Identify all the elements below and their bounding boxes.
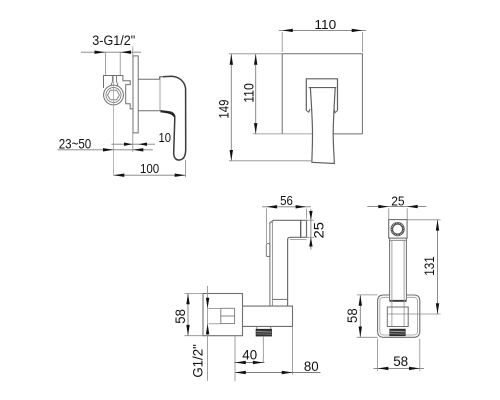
handset head side outline [270, 220, 307, 306]
arrow up at nipple bottom [206, 324, 209, 335]
handset grip front edge outer [269, 223, 271, 306]
dim line 10 [112, 143, 156, 145]
extension line flange right bottom v4 [419, 339, 421, 371]
svg-text:56: 56 [280, 193, 293, 208]
arrow down 58 v3 [186, 325, 189, 336]
arrow left-pointing at 100 left [114, 174, 125, 177]
flange nipple mid line [221, 315, 235, 317]
arrow left-pointing at port right [120, 51, 131, 54]
arrow right-pointing 56 [296, 205, 307, 208]
valve centerline [113, 76, 115, 175]
dim line 58 left v3 [187, 294, 189, 336]
plate bottom edge left segment [253, 133, 312, 135]
extension line plate right top [361, 32, 363, 52]
dim line 40 [234, 362, 264, 364]
trim housing right edge [159, 77, 161, 111]
dim line 25 top [367, 206, 426, 208]
handle head bar top [306, 79, 337, 111]
arrow right-pointing 110 [352, 29, 363, 32]
handset grip ring [272, 298, 287, 300]
svg-text:40: 40 [242, 348, 257, 363]
svg-text:23~50: 23~50 [59, 136, 92, 152]
extension line plate top [132, 47, 134, 57]
extension line flange top left [185, 293, 204, 295]
arrow right-pointing 80 [282, 371, 293, 374]
arrow left-pointing 110 [282, 29, 293, 32]
extension line plate bottom [132, 133, 134, 152]
extension line wall face [234, 336, 236, 381]
extension line nipple bottom [209, 323, 221, 325]
extension line port left [104, 52, 106, 75]
dim line 3-G1/2 [81, 51, 141, 53]
arrow down 131 [436, 303, 439, 314]
svg-text:110: 110 [241, 83, 256, 103]
extension line flange bottom left [185, 335, 204, 337]
valve cartridge inner ring [106, 88, 121, 103]
arrow down 25 [309, 211, 312, 220]
flange nipple box [221, 308, 235, 323]
plate bottom edge right segment [334, 133, 363, 135]
bracket cup front [387, 307, 408, 327]
trim plate front [282, 54, 362, 134]
bracket arm [243, 306, 293, 326]
dim line 80 [235, 372, 321, 374]
extension line head top right [307, 219, 314, 221]
arrow right-pointing at port left [95, 51, 106, 54]
svg-text:G1/2": G1/2" [190, 344, 205, 378]
extension line flange left bottom v4 [377, 339, 379, 371]
lever handle outline [161, 76, 186, 160]
arrow left-pointing 40 [235, 361, 246, 364]
arrow down 58 v4 [359, 327, 362, 338]
wall flange front inner [380, 297, 418, 335]
arrow right-pointing 25 top [378, 205, 389, 208]
dim line 149 [230, 54, 232, 161]
dim line 56 [262, 206, 311, 208]
arrow right-pointing at plate left [124, 143, 133, 146]
valve cartridge outer circle [104, 85, 124, 105]
arrow down 110 left [254, 123, 257, 134]
svg-text:131: 131 [422, 256, 437, 276]
svg-text:25: 25 [311, 222, 326, 239]
handset head front [389, 220, 407, 239]
grip front outer lines [390, 238, 407, 300]
extension line nipple top [209, 307, 221, 309]
arrow down 149 [230, 150, 233, 161]
trim housing top line [138, 78, 160, 80]
grip end line in cup [387, 313, 408, 315]
valve cartridge hex [108, 90, 120, 100]
dim line 110 left [255, 54, 257, 134]
dim line 23~50 [58, 149, 153, 151]
hose extension line [262, 336, 264, 363]
dim line 25 vertical [310, 209, 312, 249]
handle left tab bottom [306, 109, 310, 112]
arrow up 58 v4 [359, 295, 362, 306]
arrow left-pointing 80 [235, 371, 246, 374]
extension line head top right v4 [407, 219, 440, 221]
arrow left-pointing at plate back [133, 148, 143, 151]
extension line flange bottom left v4 [357, 336, 378, 338]
arrow right-pointing at centerline [103, 148, 114, 151]
handle head inner line [309, 87, 337, 89]
lever underside dark stroke [161, 111, 175, 116]
hose nut front [390, 329, 405, 336]
arrow up 25 [309, 237, 312, 246]
extension line head left v4 [388, 208, 390, 219]
arrow up 110 left [254, 54, 257, 65]
handle right tab bottom [334, 109, 338, 113]
dim line 131 [437, 220, 439, 314]
handset head underside second line [290, 238, 307, 240]
extension line head rear [305, 209, 307, 219]
handle stem [310, 88, 335, 164]
arrow up 131 [436, 220, 439, 231]
svg-text:58: 58 [173, 309, 188, 324]
extension line head right v4 [406, 208, 408, 219]
extension line port right [119, 52, 121, 75]
dim line G1/2 vertical [207, 286, 209, 381]
dim line 110 top [279, 29, 366, 31]
dim line 58 left v4 [359, 295, 361, 337]
arrow right-pointing 40 [253, 361, 264, 364]
extension line flange top left v4 [357, 294, 378, 296]
trim housing bottom line [138, 110, 160, 112]
svg-text:3-G1/2": 3-G1/2" [92, 33, 135, 48]
extension line 149 bottom [229, 160, 313, 162]
handset grip front edge inner [271, 222, 273, 307]
extension line arm right [292, 326, 294, 374]
arrow left-pointing 25 top [407, 205, 418, 208]
arrow right-pointing 58 bottom [409, 367, 420, 370]
hose nut side [256, 326, 271, 336]
svg-text:110: 110 [314, 17, 336, 32]
wall flange side [203, 294, 243, 336]
svg-text:80: 80 [304, 359, 319, 374]
svg-text:58: 58 [393, 354, 408, 369]
extension line head front [265, 209, 267, 244]
extension line plate left top [281, 32, 283, 52]
wall flange front outer [378, 295, 420, 337]
plate top edge extension [229, 53, 282, 55]
svg-text:10: 10 [159, 130, 172, 145]
head chamfer facet [269, 221, 273, 224]
svg-text:25: 25 [391, 193, 404, 208]
grip front inner lines [392, 240, 404, 326]
extension line cup top right v4 [408, 313, 440, 315]
wall plate [133, 56, 138, 133]
arrow down at nipple top [206, 298, 209, 309]
arrow left-pointing 56 [266, 205, 277, 208]
extension line handle tip [185, 160, 187, 177]
svg-text:58: 58 [345, 308, 360, 323]
dim line 58 bottom v4 [374, 367, 425, 369]
valve port stub [111, 76, 118, 86]
svg-text:149: 149 [216, 100, 231, 119]
arrow left-pointing 58 bottom [378, 367, 389, 370]
arrow up 58 v3 [186, 294, 189, 305]
arrow left-pointing at plate right [138, 143, 147, 146]
arrow up 149 [230, 54, 233, 65]
handset head neck line [390, 239, 407, 241]
handset head end inner line [300, 220, 302, 237]
lever handle step [160, 77, 163, 79]
spray face serrated ring [391, 222, 405, 236]
valve body outline [104, 76, 134, 109]
spray button [266, 244, 270, 257]
dim line 100 [114, 174, 186, 176]
arrow right-pointing at 100 right [175, 174, 186, 177]
svg-text:100: 100 [140, 161, 159, 176]
grip end cap bar [390, 300, 407, 302]
extension line head bottom right [307, 236, 314, 238]
